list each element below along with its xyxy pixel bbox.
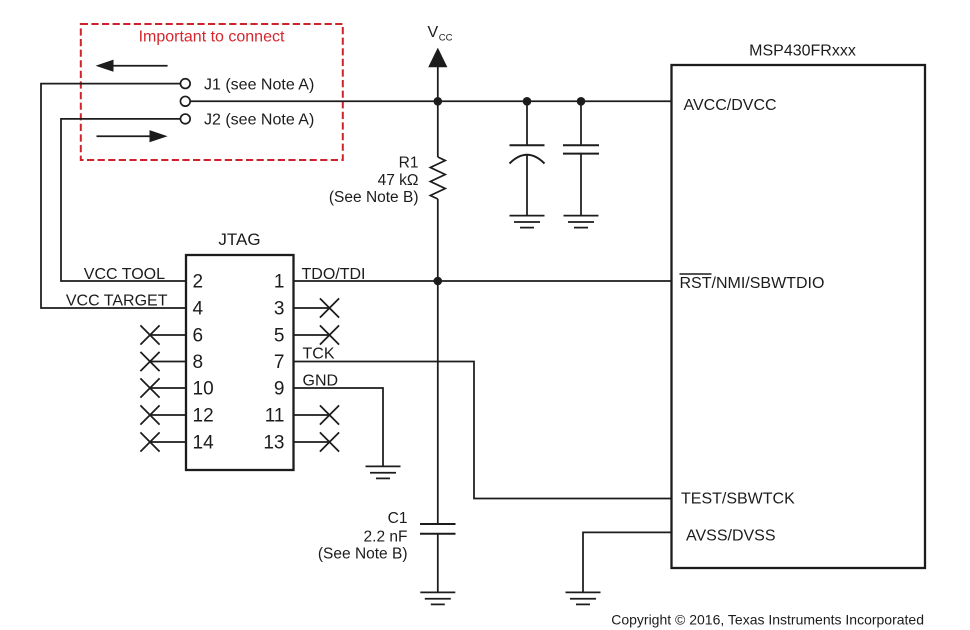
wire AVSS/DVSS to ground: [583, 532, 672, 592]
svg-text:J2 (see Note A): J2 (see Note A): [204, 112, 314, 129]
junction R1 / TDO wire: [434, 277, 443, 286]
svg-text:8: 8: [193, 352, 204, 373]
no-connect stub pin 8: [140, 352, 186, 371]
label C1 2.2 nF (See Note B): [318, 510, 408, 563]
wire J1 to JTAG pin 4: [41, 84, 186, 308]
svg-text:AVCC/DVCC: AVCC/DVCC: [684, 97, 777, 114]
resistor R1: [430, 157, 445, 199]
svg-text:J1 (see Note A): J1 (see Note A): [204, 77, 314, 94]
ground under bypass cap 2: [564, 216, 599, 228]
ground at JTAG GND: [366, 466, 401, 478]
ground at AVSS/DVSS: [566, 592, 601, 604]
connector JTAG box: [186, 230, 294, 470]
ground under C1: [420, 592, 455, 604]
svg-text:C1: C1: [388, 510, 408, 527]
svg-text:(See Note B): (See Note B): [329, 189, 419, 206]
svg-text:TEST/SBWTCK: TEST/SBWTCK: [681, 491, 795, 508]
svg-text:4: 4: [193, 298, 204, 319]
no-connect stub pin 6: [140, 325, 186, 344]
no-connect stub pin 3: [294, 298, 340, 317]
power Vcc: [428, 24, 453, 101]
wire R1 to C1: [437, 199, 439, 524]
svg-text:Important to connect: Important to connect: [139, 29, 285, 46]
svg-text:2.2 nF: 2.2 nF: [364, 529, 408, 546]
ground under polarized cap: [510, 216, 545, 228]
capacitor bypass polarized: [510, 101, 545, 215]
svg-text:R1: R1: [399, 155, 419, 172]
capacitor C1: [420, 524, 456, 592]
label R1 47 kOhm (See Note B): [329, 155, 419, 207]
svg-text:VCC TOOL: VCC TOOL: [84, 266, 165, 283]
jumper pin J2: [180, 112, 314, 129]
wire Vcc to resistor R1: [437, 101, 439, 157]
svg-text:1: 1: [274, 271, 285, 292]
svg-text:VCC TARGET: VCC TARGET: [66, 293, 168, 310]
no-connect stub pin 5: [294, 325, 340, 344]
junction Vcc rail / R1: [434, 97, 443, 106]
svg-text:5: 5: [274, 325, 285, 346]
wire TCK to TEST/SBWTCK: [294, 362, 672, 499]
junction Vcc rail / bypass cap 1: [523, 97, 532, 106]
svg-text:11: 11: [265, 405, 285, 426]
svg-text:6: 6: [193, 325, 204, 346]
jumper pin Vcc node: [180, 96, 190, 106]
svg-text:7: 7: [274, 352, 285, 373]
svg-text:Copyright © 2016, Texas Instru: Copyright © 2016, Texas Instruments Inco…: [611, 612, 924, 628]
svg-text:14: 14: [193, 432, 215, 453]
highlight box "Important to connect": [81, 24, 343, 160]
svg-text:13: 13: [263, 432, 284, 453]
wire TDO/TDI to RST/NMI/SBWTDIO: [294, 280, 672, 282]
svg-text:JTAG: JTAG: [218, 230, 260, 249]
svg-text:V: V: [428, 24, 439, 41]
wire Vcc rail to AVCC/DVCC: [190, 100, 672, 102]
no-connect stub pin 13: [294, 432, 340, 451]
arrow pointing left (to debug tool): [96, 60, 168, 72]
svg-text:10: 10: [193, 378, 214, 399]
svg-text:TCK: TCK: [303, 346, 335, 363]
no-connect stub pin 14: [140, 432, 186, 451]
jumper pin J1: [180, 77, 314, 94]
wire J2 to JTAG pin 2: [61, 119, 186, 281]
svg-text:2: 2: [193, 271, 204, 292]
wire GND pin 9 to ground: [294, 388, 384, 466]
svg-text:MSP430FRxxx: MSP430FRxxx: [749, 43, 856, 60]
no-connect stub pin 10: [140, 378, 186, 397]
svg-text:47 kΩ: 47 kΩ: [378, 172, 419, 189]
svg-text:GND: GND: [303, 373, 339, 390]
svg-text:RST/NMI/SBWTDIO: RST/NMI/SBWTDIO: [680, 275, 825, 292]
arrow pointing right (to target): [97, 130, 168, 142]
svg-text:12: 12: [193, 405, 214, 426]
junction Vcc rail / bypass cap 2: [577, 97, 586, 106]
pin label RST/NMI/SBWTDIO with overline on RST: [680, 274, 825, 292]
no-connect stub pin 12: [140, 405, 186, 424]
IC U1 MSP430FRxxx: [672, 43, 926, 569]
no-connect stub pin 11: [294, 405, 340, 424]
svg-text:AVSS/DVSS: AVSS/DVSS: [686, 528, 776, 545]
capacitor bypass 2: [563, 101, 599, 215]
svg-text:CC: CC: [439, 33, 453, 44]
svg-text:9: 9: [274, 378, 285, 399]
svg-text:3: 3: [274, 298, 285, 319]
svg-text:(See Note B): (See Note B): [318, 546, 408, 563]
